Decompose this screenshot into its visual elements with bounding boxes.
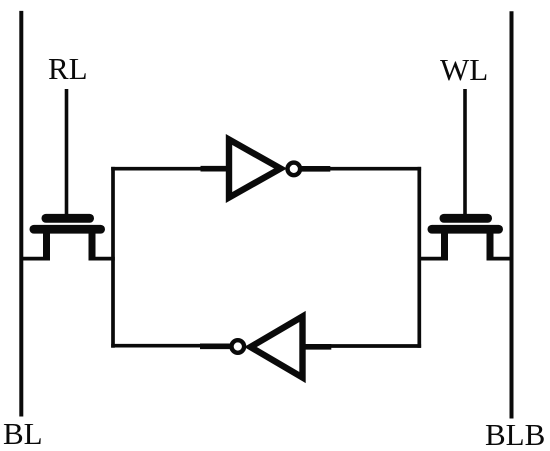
wire M2 source to node B	[418, 257, 447, 261]
bit line BLB (right vertical rail)	[510, 11, 514, 418]
transistor M2 gate bar	[440, 214, 493, 223]
transistor M1 gate bar	[42, 214, 95, 223]
svg-text:RL: RL	[48, 51, 88, 86]
transistor M1 drain leg	[89, 229, 96, 261]
inverter U2 output bubble	[232, 340, 245, 353]
wire M2 drain to BLB	[488, 257, 513, 261]
transistor M2 gate wire (WL)	[463, 89, 467, 218]
svg-text:WL: WL	[440, 52, 488, 87]
wire node B vertical (right side of latch loop)	[417, 167, 421, 348]
transistor M2 source leg	[441, 229, 448, 261]
inverter U2 triangle	[251, 317, 303, 378]
wire M1 source to BL	[20, 257, 49, 261]
transistor M2 channel bar	[428, 225, 504, 234]
wire inverter U2 output to node A	[111, 344, 202, 348]
transistor M1 gate wire (RL)	[65, 89, 69, 218]
wire node A to inverter U1 input	[111, 167, 203, 171]
inverter U1 output bubble	[288, 163, 301, 176]
inverter U2 output stub	[200, 343, 230, 349]
inverter U1 triangle	[229, 140, 281, 198]
wire node A vertical (left side of latch loop)	[111, 167, 115, 348]
transistor M1 source leg	[43, 229, 50, 261]
svg-text:BL: BL	[3, 416, 43, 451]
wire M1 drain to node A	[90, 257, 115, 261]
inverter U2 input stub	[303, 344, 331, 350]
inverter U1 input stub	[201, 166, 228, 172]
transistor M2 drain leg	[487, 229, 494, 261]
wire inverter U1 output to node B	[329, 167, 421, 171]
bit line BL (left vertical rail)	[19, 11, 23, 417]
wire node B to inverter U2 input	[329, 344, 421, 348]
svg-text:BLB: BLB	[485, 417, 545, 451]
inverter U1 output stub	[302, 166, 331, 172]
transistor M1 channel bar	[30, 225, 106, 234]
